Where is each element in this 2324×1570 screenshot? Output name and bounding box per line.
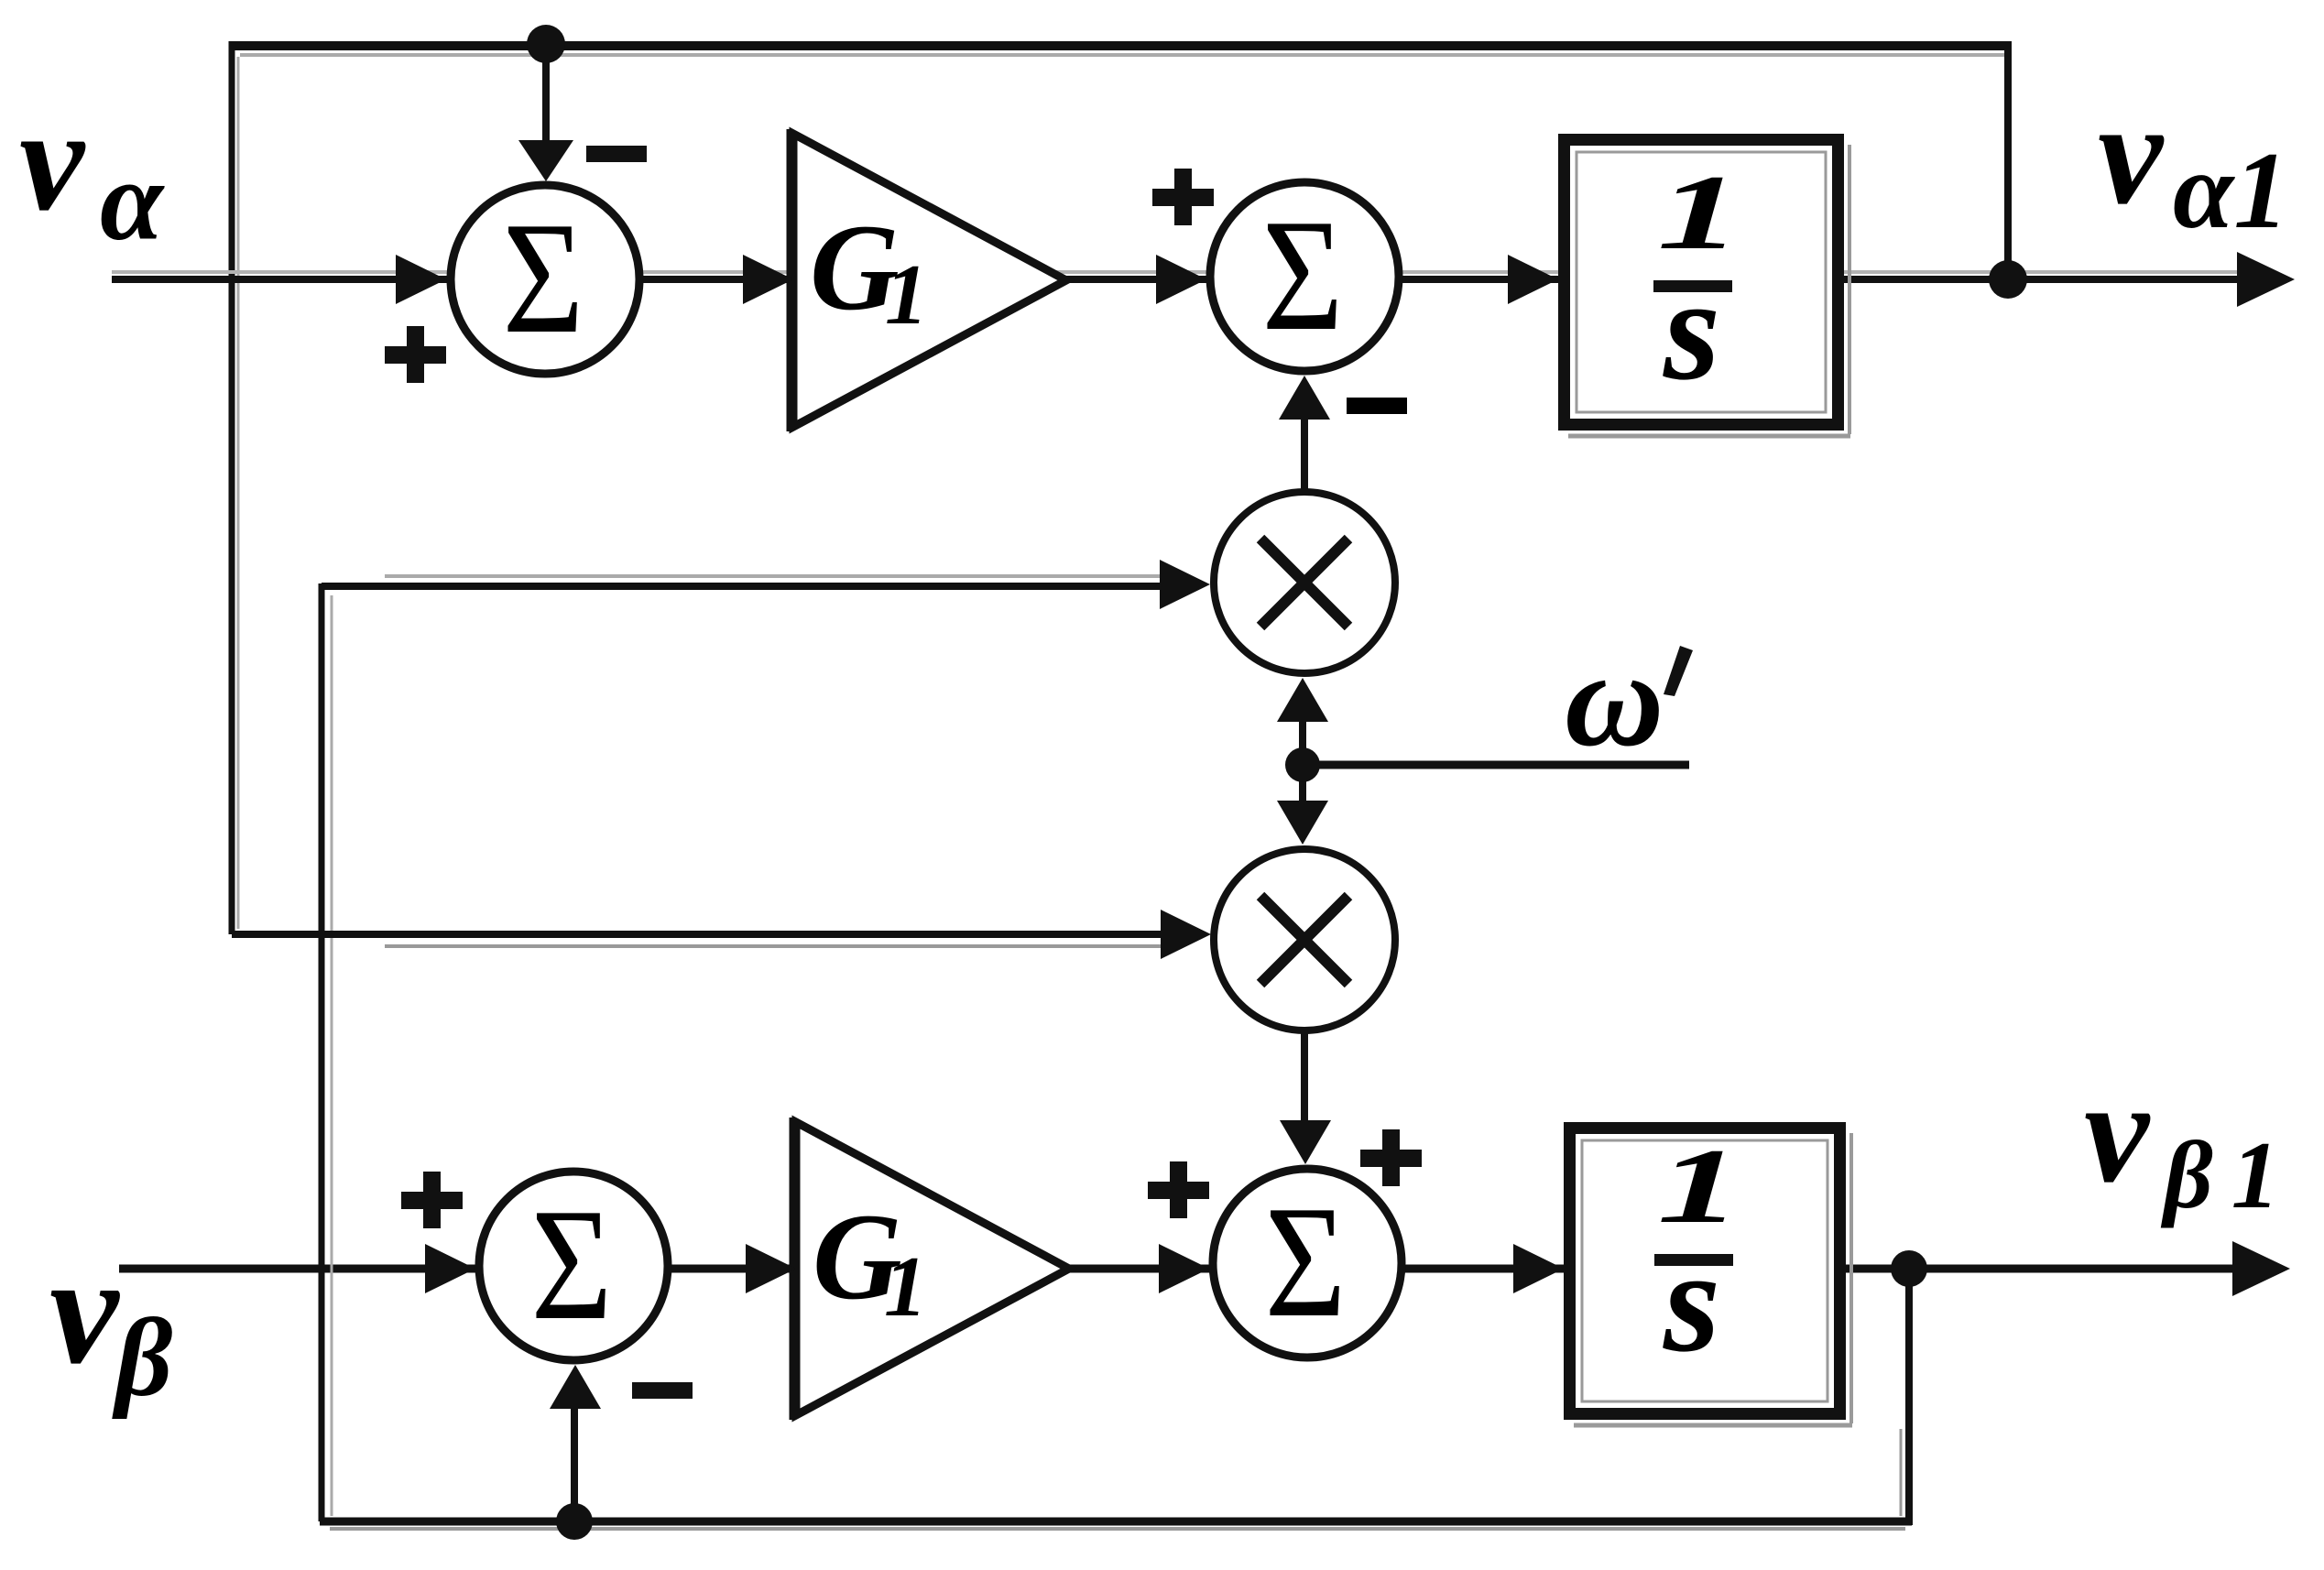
gain G1 (top): [789, 129, 1066, 431]
svg-text:1: 1: [885, 247, 928, 343]
plus sign at S1b left input: [401, 1172, 463, 1228]
wire omega-prime vertical between M1 and M2: [1299, 714, 1306, 806]
minus sign at S2 bottom input: [1347, 398, 1407, 414]
minus sign at S1b bottom input: [632, 1382, 693, 1399]
wire M2 output down into S2b: [1301, 1033, 1308, 1127]
arrowhead into G1 (top): [743, 255, 793, 304]
svg-text:Σ: Σ: [531, 1175, 613, 1353]
arrowhead down into M2 top: [1277, 801, 1328, 845]
arrowhead output v_alpha1: [2237, 252, 2295, 307]
svg-text:β: β: [112, 1296, 173, 1420]
svg-text:α1: α1: [2173, 129, 2288, 251]
node C: omega-prime junction dot: [1285, 747, 1320, 782]
label v_beta1: [2084, 1050, 2297, 1228]
svg-text:Σ: Σ: [1265, 1172, 1347, 1350]
multiplier M2 (bottom X): [1214, 849, 1395, 1030]
node D: junction dot on bottom feedback: [556, 1503, 593, 1540]
plus sign at S2b left input: [1148, 1161, 1209, 1218]
wire top feedback line (v_alpha1 to S1): [230, 46, 2012, 55]
svg-text:β1: β1: [2160, 1121, 2297, 1228]
plus sign at S1 left input: [385, 326, 446, 383]
node B: output node v_alpha1: [1989, 260, 2027, 299]
svg-text:ω: ω: [1565, 623, 1664, 775]
wire v_beta main row: [119, 1265, 2242, 1273]
arrowhead into S1 left: [396, 255, 446, 304]
plus sign at S2 left input: [1152, 169, 1214, 225]
arrowhead into S1b left: [425, 1244, 475, 1293]
gain G1b (bottom): [791, 1118, 1069, 1420]
integrator block B2 (1/s bottom): [1570, 1128, 1853, 1425]
wire into multiplier M1 (from v_beta1 feedback): [322, 576, 1163, 586]
arrowhead into S2 left: [1156, 255, 1206, 304]
arrowhead up into S1b bottom: [550, 1365, 601, 1409]
minus sign at S1 top input: [586, 146, 647, 162]
wire left inner vertical (v_beta1 feedback up to multiplier M1): [322, 583, 332, 1521]
svg-text:Σ: Σ: [1262, 186, 1344, 364]
svg-text:s: s: [1663, 1219, 1720, 1382]
wire v_alpha main row: [112, 272, 2242, 279]
svg-text:s: s: [1663, 247, 1720, 410]
wire M1 output up into S2: [1301, 414, 1308, 490]
arrowhead into M2: [1161, 910, 1211, 959]
multiplier M1 (top X): [1214, 492, 1395, 673]
node A: junction dot on top feedback: [527, 25, 565, 63]
svg-text:α: α: [100, 138, 165, 265]
svg-text:Σ: Σ: [503, 189, 584, 366]
arrowhead into B2: [1513, 1244, 1564, 1293]
wire right vertical (output node up to top feedback): [2004, 41, 2012, 279]
label v_alpha: [19, 78, 165, 265]
svg-text:v: v: [19, 78, 86, 241]
arrowhead down into S2b top: [1280, 1120, 1331, 1164]
arrowhead down into S1 top: [518, 140, 573, 181]
summing junction S2b (bottom-right sigma): [1213, 1169, 1402, 1357]
summing junction S1b (bottom-left sigma): [479, 1172, 668, 1360]
wire left vertical (v_alpha1 feedback down to multiplier M2): [232, 41, 238, 934]
arrowhead up into S2 bottom: [1279, 376, 1330, 420]
svg-text:v: v: [2098, 71, 2165, 234]
svg-text:v: v: [2084, 1050, 2151, 1213]
svg-text:1: 1: [884, 1239, 927, 1335]
arrowhead into G1b: [746, 1244, 796, 1293]
plus sign at S2b top input: [1360, 1129, 1422, 1186]
wire bottom feedback line (v_beta1 back to S1b): [320, 1521, 1912, 1529]
arrowhead into S2b left: [1159, 1244, 1209, 1293]
wire vertical from v_beta1 node down to bottom feedback: [1901, 1269, 1909, 1525]
wire omega-prime input line: [1303, 761, 1689, 769]
integrator block B1 (1/s top): [1565, 140, 1851, 437]
label v_alpha1: [2098, 71, 2288, 251]
summing junction S2 (top-right sigma): [1210, 182, 1399, 371]
wire up from bottom feedback into S1b: [571, 1404, 578, 1521]
arrowhead into M1: [1160, 560, 1210, 609]
wire into multiplier M2 (from v_alpha1 feedback): [232, 934, 1163, 946]
wire down from node A into S1: [542, 44, 550, 151]
arrowhead into B1: [1508, 255, 1558, 304]
arrowhead output v_beta1: [2232, 1241, 2290, 1296]
node E: output node v_beta1: [1891, 1250, 1927, 1287]
label omega-prime: [1565, 623, 1693, 775]
label v_beta: [49, 1224, 173, 1420]
svg-text:v: v: [49, 1224, 120, 1396]
arrowhead up into M1 bottom: [1277, 678, 1328, 722]
summing junction S1 (top-left sigma): [451, 185, 639, 374]
